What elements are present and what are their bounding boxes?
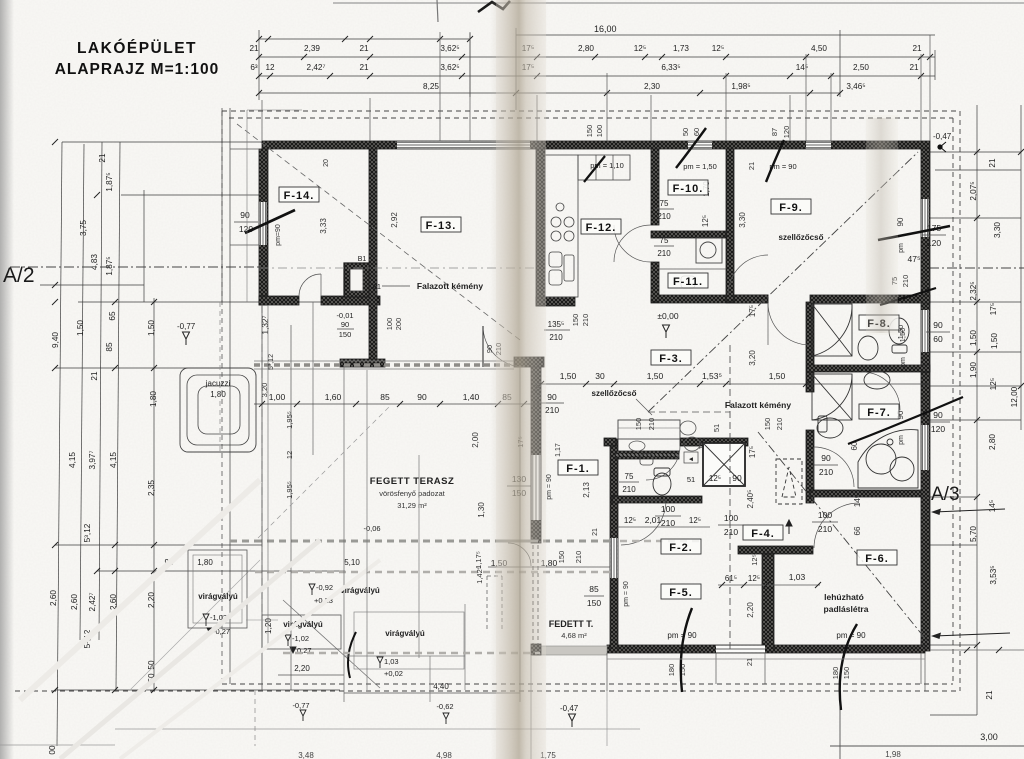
room label F-8 [859, 315, 899, 330]
room label F-5 [661, 584, 701, 599]
svg-text:14⁶: 14⁶ [853, 495, 862, 507]
dim line y384 hall [541, 383, 930, 385]
svg-text:17⁵: 17⁵ [989, 303, 998, 316]
dim horiz right y302 [930, 301, 1021, 303]
svg-text:szellőzőcső: szellőzőcső [779, 233, 824, 242]
svg-text:F-10.: F-10. [673, 183, 704, 195]
dim tick row3 [513, 90, 519, 96]
room label F-13 [421, 217, 461, 232]
door arc F-14 [299, 274, 321, 296]
dim ext vert x921 below building [920, 653, 922, 684]
window right wall lower [922, 425, 929, 470]
svg-text:1,50: 1,50 [990, 333, 999, 349]
svg-text:85: 85 [380, 392, 390, 402]
chair a [680, 421, 696, 435]
attic ladder arrow [786, 520, 792, 534]
svg-text:210: 210 [724, 527, 738, 537]
wall F-7 south [810, 490, 921, 497]
dim tick row2 [828, 73, 834, 79]
svg-text:180: 180 [667, 664, 676, 677]
svg-text:12⁵: 12⁵ [748, 574, 760, 583]
dim tick left x55 [52, 542, 58, 548]
terrace vert x247 [247, 109, 302, 111]
dim ext vert x790 above building [789, 95, 791, 141]
svg-text:-0,01: -0,01 [336, 311, 353, 320]
svg-text:1,95⁵: 1,95⁵ [285, 411, 294, 429]
svg-text:6,33⁵: 6,33⁵ [661, 63, 680, 72]
dim tick left x115 [112, 687, 118, 693]
svg-text:lehúzható: lehúzható [824, 592, 864, 602]
dim tick row1 [459, 54, 465, 60]
roof dashed top inner [229, 117, 953, 119]
terrace ext vert x262 solid [261, 305, 263, 690]
dim line top row0 [516, 34, 935, 36]
svg-text:2,20: 2,20 [294, 664, 310, 673]
svg-text:21: 21 [592, 528, 599, 536]
svg-text:210: 210 [661, 518, 675, 528]
chimney F-4 box with X [703, 443, 745, 486]
svg-text:50: 50 [681, 128, 690, 136]
terrace dash row y541 east [620, 540, 700, 543]
dim vert x222 [221, 108, 223, 302]
dim tick y384 c [611, 381, 617, 387]
svg-text:150: 150 [587, 598, 601, 608]
roof dashed right inner [952, 118, 954, 684]
svg-text:1,17: 1,17 [555, 443, 562, 457]
svg-text:1,87⁵: 1,87⁵ [105, 172, 114, 191]
dim frac left window [234, 221, 258, 223]
wall stub left of niche [604, 438, 616, 446]
svg-text:210: 210 [819, 467, 833, 477]
svg-text:90: 90 [732, 473, 742, 483]
svg-text:2,07⁵: 2,07⁵ [969, 181, 978, 200]
svg-text:2,60: 2,60 [70, 594, 79, 610]
dim frac 90-60 [926, 331, 950, 333]
svg-text:2,42⁷: 2,42⁷ [88, 593, 97, 612]
svg-text:pm=90: pm=90 [275, 224, 282, 246]
chair b [684, 437, 700, 451]
scan paper shade left edge [0, 0, 14, 759]
svg-text:F-4.: F-4. [751, 528, 775, 540]
wall F-5/F-6 partition [762, 554, 774, 651]
svg-text:2,35: 2,35 [147, 480, 156, 496]
svg-text:1,50: 1,50 [969, 330, 978, 346]
dining table inner [618, 427, 680, 429]
level flag ±0,00 [663, 325, 670, 338]
dim tick row1 [927, 54, 933, 60]
dim ext vert x440 above building [439, 32, 441, 141]
svg-text:F-14.: F-14. [284, 190, 315, 202]
dim tick y404 x524 [521, 401, 527, 407]
svg-text:1,60: 1,60 [325, 392, 342, 402]
jacuzzi inner [198, 386, 240, 434]
dim tick x1021 y152 [1018, 149, 1024, 155]
dim line y404 terrace [254, 403, 540, 405]
svg-text:virágvályú: virágvályú [198, 592, 238, 601]
svg-text:150: 150 [585, 125, 594, 138]
terrace living boundary thin [254, 368, 514, 370]
svg-text:LAKÓÉPÜLET: LAKÓÉPÜLET [77, 39, 197, 57]
level flag mid a [285, 635, 291, 646]
dim tick row2 [534, 73, 540, 79]
dim vert x55 [57, 142, 62, 746]
dim vert x1021 right [1020, 105, 1022, 430]
svg-text:2,30: 2,30 [644, 82, 660, 91]
svg-text:jacuzzi: jacuzzi [205, 379, 231, 388]
svg-text:30: 30 [595, 371, 605, 381]
dim tick x977 y645 [974, 642, 980, 648]
svg-text:4,83: 4,83 [90, 254, 99, 270]
dim ext vert x831 above building [830, 73, 832, 141]
dim horiz y142 left [62, 141, 262, 143]
svg-text:61⁵: 61⁵ [725, 574, 737, 583]
dim tick y404 x297 [294, 401, 300, 407]
svg-text:150: 150 [634, 418, 643, 431]
terrace dash row y541 [255, 540, 610, 543]
svg-text:B1: B1 [358, 256, 367, 263]
dim horiz right y218 [930, 217, 1021, 219]
door arc F-6 entry [814, 503, 859, 548]
terrace horiz y620 fragment [246, 619, 278, 621]
room label F-2 [661, 539, 701, 554]
svg-text:180: 180 [831, 667, 840, 680]
F-8 toilet [889, 318, 909, 353]
svg-text:1,53⁵: 1,53⁵ [702, 371, 722, 381]
flower box d outline [354, 612, 464, 669]
dim horiz y690 left [55, 689, 340, 691]
diagonal dashdot F-6 [758, 432, 928, 642]
svg-text:3,46⁵: 3,46⁵ [846, 82, 865, 91]
door arc F-2 entry [621, 500, 666, 545]
svg-text:3,62⁵: 3,62⁵ [440, 44, 459, 53]
wall F-14/F-13 partition [369, 149, 377, 359]
svg-text:12⁵: 12⁵ [709, 474, 721, 483]
svg-text:3,53⁵: 3,53⁵ [989, 565, 998, 584]
wall F-14 west [259, 149, 268, 305]
dim tick left x55 [94, 192, 100, 198]
wall F-9 south west [726, 295, 768, 303]
dim tick y404 x440 [437, 401, 443, 407]
dim tick y650 b [996, 647, 1002, 653]
F-8 washbasin [858, 336, 878, 360]
wall F-14 south b [321, 296, 380, 305]
svg-text:2,92: 2,92 [390, 212, 399, 228]
svg-text:FEDETT T.: FEDETT T. [549, 619, 594, 629]
dim tick left x154 [151, 365, 157, 371]
dim ext vert x765 below building [764, 653, 766, 684]
dim tick row3 [837, 90, 843, 96]
dim tick y650 a [964, 647, 970, 653]
dim horiz right y352 [930, 351, 1021, 353]
svg-text:21: 21 [747, 162, 756, 170]
svg-text:75: 75 [625, 472, 634, 481]
svg-text:210: 210 [775, 418, 784, 431]
svg-text:51: 51 [712, 424, 721, 432]
wall F-8/F-7 partition [807, 365, 930, 372]
dim line y527 [618, 526, 710, 528]
dim frac F1 [507, 485, 531, 487]
dim ext vert x607 below building [606, 653, 608, 691]
dim vert x115 [116, 142, 120, 690]
terrace living boundary band [254, 363, 514, 367]
dim ext vert x370 above building [369, 98, 371, 141]
svg-text:2,60: 2,60 [49, 590, 58, 606]
dim ext vert x840 top [839, 30, 841, 97]
dim tick row2 [787, 73, 793, 79]
svg-text:210: 210 [901, 275, 910, 288]
dim tick left x55 [52, 299, 58, 305]
svg-text:padláslétra: padláslétra [824, 604, 869, 614]
svg-text:1,30: 1,30 [477, 502, 486, 518]
svg-text:pm = 1,50: pm = 1,50 [683, 162, 717, 171]
roof dashed bottom inner [222, 683, 953, 685]
svg-text:21: 21 [98, 153, 107, 163]
level flag c [309, 584, 315, 595]
svg-text:150: 150 [339, 330, 352, 339]
dim line 2,20 [278, 674, 344, 676]
pen stroke pm90 top [766, 140, 784, 182]
svg-text:135⁵: 135⁵ [548, 320, 565, 329]
svg-text:F-7.: F-7. [867, 407, 891, 419]
dim horiz y571 left [97, 570, 345, 572]
dim tick row1 [803, 54, 809, 60]
svg-text:12⁵: 12⁵ [750, 554, 759, 565]
kitchen counter west [545, 155, 578, 297]
dim vert dashed x255 bottom [254, 690, 256, 746]
svg-text:1,03: 1,03 [789, 572, 806, 582]
svg-text:12: 12 [285, 451, 294, 459]
door arc kitchen double lower [614, 225, 651, 262]
wall F-11 south [651, 295, 768, 303]
dim tick row2 [918, 73, 924, 79]
dim tick y585 d [815, 582, 821, 588]
roof dashed bottom outer [15, 690, 960, 692]
dim ext vert x806 above building [805, 54, 807, 141]
fold wash lighten right [866, 115, 898, 335]
porch door jamb dashed a [532, 545, 534, 644]
room label F-12 [581, 219, 621, 234]
dim tick row0b [265, 36, 271, 42]
dim tick y585 a [719, 582, 725, 588]
svg-text:90: 90 [240, 210, 250, 220]
svg-text:F-1.: F-1. [566, 463, 590, 475]
svg-text:5³,12: 5³,12 [268, 354, 275, 370]
dim tick left x115 [112, 299, 118, 305]
dim frac porch [584, 595, 604, 597]
dim ext vert x537 above building [536, 95, 538, 141]
svg-text:120: 120 [927, 238, 941, 248]
kitchen counter north div1 [595, 155, 597, 180]
dim horiz y149 left connector [230, 148, 259, 150]
wall hall post bottom [531, 644, 541, 655]
dim horiz right y545 [930, 544, 977, 546]
dim line top row0b [259, 38, 470, 40]
dim line y585 [718, 584, 820, 586]
roof dashed right outer [959, 111, 961, 691]
attic ladder dashed box [776, 459, 802, 504]
svg-text:100: 100 [661, 504, 675, 514]
svg-text:21: 21 [359, 63, 369, 72]
svg-text:100: 100 [724, 513, 738, 523]
svg-text:3,30: 3,30 [738, 212, 747, 228]
svg-text:210: 210 [574, 551, 583, 564]
dim tick row0b [342, 36, 348, 42]
svg-text:51: 51 [687, 475, 695, 484]
dim horiz y285 left [40, 284, 144, 286]
kémény leader west [382, 285, 410, 287]
section arrow A/3 [931, 509, 1005, 516]
F-4 toilet [653, 468, 671, 495]
svg-text:2,39: 2,39 [304, 44, 320, 53]
svg-text:+0,02: +0,02 [384, 669, 403, 678]
svg-text:90: 90 [547, 392, 557, 402]
room label F-3 [651, 350, 691, 365]
svg-text:100: 100 [385, 318, 394, 331]
svg-text:3,97⁷: 3,97⁷ [88, 451, 97, 470]
dim vert x230 [229, 108, 231, 684]
terrace vert x367 [366, 370, 368, 690]
dim frac 100-210 b [812, 521, 838, 523]
svg-text:21: 21 [90, 371, 99, 381]
jacuzzi mid [187, 375, 249, 445]
dim horiz right y170 [935, 169, 1021, 171]
dim line top row1 [259, 56, 935, 58]
svg-text:2,50: 2,50 [853, 63, 869, 72]
svg-text:85: 85 [589, 584, 599, 594]
dim tick y384 a [538, 381, 544, 387]
section arrow A/3 lower [931, 633, 1010, 640]
dim ext vert x925 below building [924, 653, 926, 691]
svg-text:1,50: 1,50 [147, 320, 156, 336]
svg-text:-0,47: -0,47 [560, 704, 579, 713]
F-7 toilet [817, 416, 843, 438]
section line A/3 dashdot [929, 267, 1024, 269]
dim tick row1 [642, 54, 648, 60]
dim tick row2 [723, 73, 729, 79]
svg-text:FEGETT TERASZ: FEGETT TERASZ [370, 476, 455, 487]
svg-text:8,25: 8,25 [423, 82, 439, 91]
wall hall corner piece [514, 357, 544, 367]
svg-text:5³,12: 5³,12 [83, 523, 92, 542]
diagonal dashed terrace corner cut [283, 600, 380, 688]
pencil scribble top center [478, 1, 510, 12]
dim frac F10 [654, 208, 674, 210]
dim tick left x55 [94, 568, 100, 574]
svg-text:4,68 m²: 4,68 m² [561, 631, 587, 640]
scan top-left sheet corner line [437, 0, 438, 22]
svg-text:120: 120 [931, 424, 945, 434]
pen stroke terrace bottom [348, 632, 356, 678]
window hall column [532, 455, 541, 520]
svg-text:210: 210 [622, 485, 636, 494]
porch door jamb dashed b [537, 545, 539, 644]
flower box west [188, 550, 247, 628]
pen stroke bottom east [840, 624, 857, 710]
bench hatch niche [616, 454, 679, 456]
svg-text:4,15: 4,15 [109, 452, 118, 468]
svg-text:5,70: 5,70 [969, 526, 978, 542]
flue dashed horizontal [648, 411, 730, 413]
dim tick row0b [367, 36, 373, 42]
window top wall x806 [806, 142, 831, 149]
dim horiz y195 left [121, 194, 262, 196]
terrace vert x419 [418, 455, 420, 658]
door arc kitchen double upper [614, 225, 651, 262]
porch step band bottom [534, 646, 607, 655]
dim vert x144 [143, 190, 145, 302]
svg-text:1,50: 1,50 [769, 371, 786, 381]
svg-text:1,00: 1,00 [269, 392, 286, 402]
svg-text:1,80: 1,80 [149, 391, 158, 407]
svg-text:1,98: 1,98 [885, 750, 901, 759]
dim tick y384 d [697, 381, 703, 387]
dim tick y585 c [763, 582, 769, 588]
svg-text:1,80: 1,80 [197, 558, 213, 567]
svg-text:90: 90 [341, 320, 349, 329]
svg-text:2,40⁵: 2,40⁵ [746, 490, 755, 509]
dim vert x97 [99, 142, 102, 640]
roof dashed top outer [222, 110, 960, 112]
dim frac 75 F1 [619, 481, 639, 483]
svg-text:4,98: 4,98 [436, 751, 452, 759]
svg-text:1,90: 1,90 [969, 362, 978, 378]
dim tick row2 [459, 73, 465, 79]
dim frac x552 [540, 402, 564, 404]
dim horiz y245 left connector [230, 244, 259, 246]
terrace step edge [254, 360, 514, 362]
wall F-10/F-9 partition [726, 149, 734, 302]
svg-text:12⁵: 12⁵ [624, 516, 636, 525]
dim tick left x55 [52, 365, 58, 371]
diagonal faint terrace 1 [130, 560, 260, 690]
dim ext vert x921 above building [920, 54, 922, 141]
terrace vert x247b [246, 110, 248, 302]
dim horiz right y715 [930, 714, 977, 716]
terrace vert x344 [343, 367, 345, 702]
svg-text:F-13.: F-13. [426, 220, 457, 232]
window F-14 west wall [260, 202, 267, 245]
svg-text:31,29 m²: 31,29 m² [397, 501, 427, 510]
flower box mid [262, 615, 341, 649]
svg-text:5,10: 5,10 [344, 558, 360, 567]
window top wall x688 [688, 142, 712, 149]
svg-text:210: 210 [657, 249, 671, 258]
pen stroke bottom west [681, 608, 692, 692]
hall dashed y541 left fragment [500, 540, 532, 543]
svg-text:75: 75 [660, 199, 669, 208]
svg-text:21: 21 [912, 44, 922, 53]
dim horiz right y645 [930, 644, 977, 646]
svg-text:2,20: 2,20 [746, 602, 755, 618]
svg-text:3,00: 3,00 [980, 732, 998, 742]
svg-text:00: 00 [48, 745, 57, 755]
svg-text:-0,77: -0,77 [177, 322, 196, 331]
porch step dashed west [486, 576, 488, 630]
dim tick y404 x356 [353, 401, 359, 407]
F-11 toilet [696, 238, 722, 263]
svg-text:F-12.: F-12. [586, 222, 617, 234]
dim tick row2 [267, 73, 273, 79]
svg-text:1,40: 1,40 [463, 392, 480, 402]
svg-text:1,50: 1,50 [560, 371, 577, 381]
scan fold secondary band right [864, 118, 898, 333]
wall y438 north of chimney [680, 438, 748, 446]
room label F-14 [279, 187, 319, 202]
dim ext vert x935 top [934, 50, 936, 80]
window top wall wide [397, 142, 530, 149]
dim ext vert x531 bottom [530, 655, 532, 759]
svg-text:14⁵: 14⁵ [988, 500, 997, 513]
